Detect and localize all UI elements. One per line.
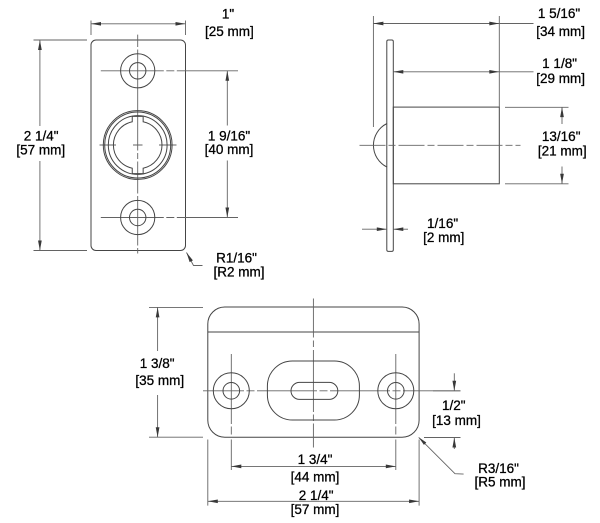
ball protruding arc <box>373 124 387 168</box>
dimension 2 1/4": extension lines <box>207 440 209 506</box>
svg-text:1 3/8": 1 3/8" <box>140 356 175 371</box>
svg-text:1": 1" <box>222 7 235 22</box>
dimension 13/16": dimension line split <box>561 107 563 124</box>
svg-text:1 1/8": 1 1/8" <box>542 56 577 71</box>
svg-text:1/16": 1/16" <box>427 216 458 231</box>
bottom view vertical centerline <box>312 299 314 448</box>
catch bore with top/bottom notches <box>113 116 162 173</box>
bottom screw hole counterbore <box>121 200 155 234</box>
ball slot stadium <box>291 382 338 399</box>
svg-text:[40 mm]: [40 mm] <box>205 142 254 157</box>
dimension 1 3/4" arrows <box>231 465 241 469</box>
top hole centerline <box>101 70 238 72</box>
svg-text:[R2 mm]: [R2 mm] <box>213 265 264 280</box>
left screw hole bore <box>223 383 240 400</box>
dimension 1 9/16" holes: dimension line (broken for text) <box>226 71 228 126</box>
svg-text:R1/16": R1/16" <box>216 251 257 266</box>
side plate (edge-on) <box>387 40 394 251</box>
dimension 2 1/4" arrows <box>208 499 218 503</box>
svg-text:2 1/4": 2 1/4" <box>299 488 334 503</box>
side view horizontal centerline <box>360 144 521 146</box>
front plate outline <box>91 40 186 251</box>
front vertical centerline <box>137 35 139 254</box>
svg-text:[25 mm]: [25 mm] <box>205 24 254 39</box>
dimension 1 1/8": dimension line <box>393 71 533 73</box>
dimension 2 1/4": dimension line <box>208 500 419 502</box>
dimension 1 3/8" arrows <box>156 307 160 317</box>
svg-text:1/2": 1/2" <box>442 398 466 413</box>
catch flange rim second circle <box>105 112 171 178</box>
svg-text:[29 mm]: [29 mm] <box>536 71 585 86</box>
bottom screw hole bore <box>130 209 146 225</box>
bottom hole centerline <box>101 217 238 219</box>
svg-text:[13 mm]: [13 mm] <box>432 413 481 428</box>
right screw hole counterbore <box>378 373 414 409</box>
dimension 1/16" thickness: arrows outside <box>362 228 387 230</box>
catch sleeve mid circle <box>108 116 167 175</box>
bottom view horizontal centerline <box>203 390 461 392</box>
dimension 13/16": extension lines <box>505 106 569 108</box>
catch outer flange circle <box>103 111 172 180</box>
left screw hole centerline vertical <box>230 354 232 470</box>
catch housing obround <box>267 361 359 420</box>
dimension 1 3/8": extension lines <box>149 306 203 308</box>
right screw hole bore <box>388 383 405 400</box>
svg-text:[34 mm]: [34 mm] <box>536 24 585 39</box>
dimension 1" width: extension lines <box>90 21 92 36</box>
bottom plate outline <box>208 307 419 437</box>
svg-text:2 1/4": 2 1/4" <box>24 129 59 144</box>
svg-text:[57 mm]: [57 mm] <box>16 143 65 158</box>
svg-text:[2 mm]: [2 mm] <box>423 230 464 245</box>
dimension 1" arrows <box>91 22 101 26</box>
top screw hole counterbore <box>121 54 155 88</box>
dimension 13/16" arrows <box>560 107 564 117</box>
left screw hole counterbore <box>213 373 249 409</box>
svg-text:1 3/4": 1 3/4" <box>298 452 333 467</box>
right screw hole centerline vertical <box>395 354 397 470</box>
leader R3/16 corner radius <box>419 437 464 474</box>
top screw hole bore <box>130 63 146 79</box>
dimension 1 5/16": extension lines <box>372 16 374 127</box>
dimension 2 1/4" height: dimension line (broken for text) <box>39 40 41 126</box>
dimension 1/2": extension lines <box>433 390 461 392</box>
svg-text:[21 mm]: [21 mm] <box>538 143 587 158</box>
svg-text:13/16": 13/16" <box>542 129 581 144</box>
dimension 1 5/16": dimension line <box>373 23 533 25</box>
dimension 2 1/4" height: extension lines <box>34 39 88 41</box>
svg-text:[R5 mm]: [R5 mm] <box>474 475 525 490</box>
bottom plate inner edge line <box>208 331 419 333</box>
svg-text:[44 mm]: [44 mm] <box>291 470 340 485</box>
dimension 2 1/4" arrows <box>38 40 42 50</box>
dimension 1 5/16" arrows <box>373 22 383 26</box>
dimension 1 3/4": dimension line <box>231 465 395 467</box>
leader R1/16 corner radius <box>187 253 203 266</box>
dimension 1 3/8": dimension line split <box>157 307 159 351</box>
dimension 1" width: dimension line <box>91 23 186 25</box>
dimension 1 9/16" arrows <box>225 71 229 81</box>
svg-text:[57 mm]: [57 mm] <box>291 502 340 517</box>
svg-text:[35 mm]: [35 mm] <box>135 373 184 388</box>
dimension 1/2": arrow stems outside <box>453 373 455 391</box>
front horizontal centerline through catch <box>100 144 177 146</box>
svg-text:1 5/16": 1 5/16" <box>538 6 581 21</box>
dimension 1 1/8" arrows <box>393 70 403 74</box>
catch cylinder body <box>393 107 499 184</box>
